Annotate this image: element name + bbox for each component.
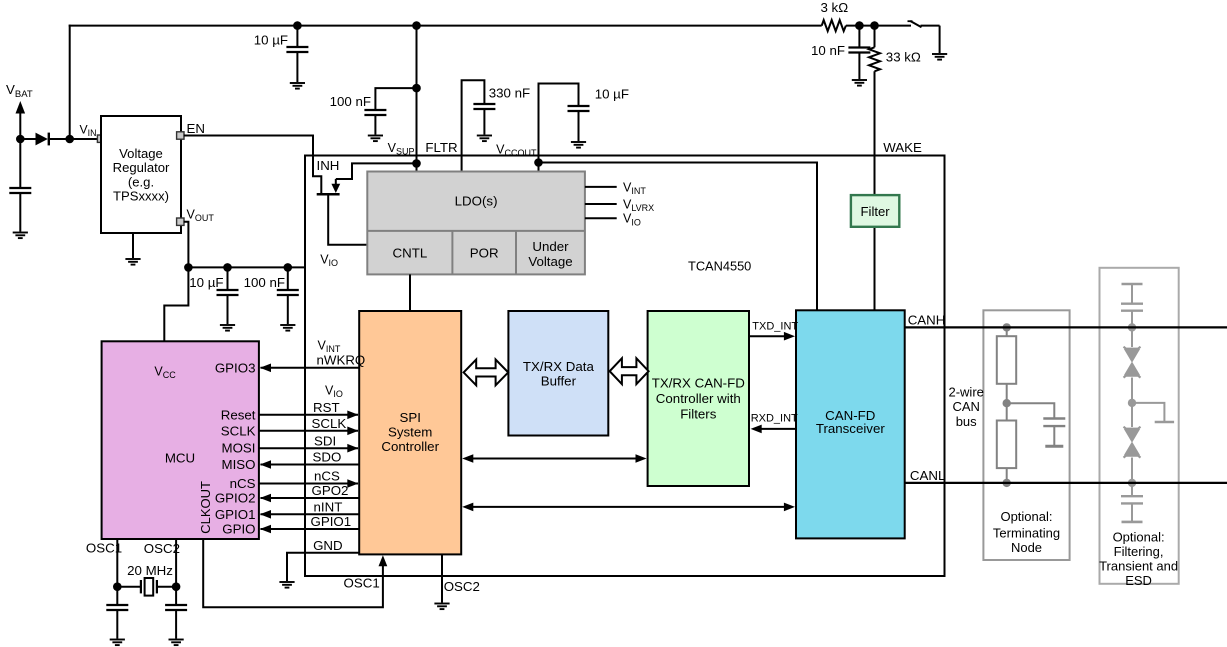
node INH-VSUP junction [412,159,421,168]
svg-text:TPSxxxx): TPSxxxx) [113,189,169,204]
svg-text:100 nF: 100 nF [330,94,371,109]
svg-text:MISO: MISO [222,457,256,472]
svg-text:RST: RST [313,400,340,415]
svg-text:Under: Under [532,239,569,254]
wire nCS [259,469,359,488]
wire SDO [260,450,359,469]
svg-text:POR: POR [470,246,499,261]
svg-text:EN: EN [187,121,205,136]
pin VINT stub [585,181,646,197]
resistor Rterm1 (terminating node upper 60 ohm) [997,327,1016,383]
svg-text:Transceiver: Transceiver [816,421,886,436]
wire RXD_INT [751,413,798,434]
node ESD CANL junction [1128,479,1136,487]
svg-text:330 nF: 330 nF [489,86,530,101]
svg-text:100 nF: 100 nF [244,275,285,290]
pin VIN square [97,135,104,142]
capacitor ESD top cap to chassis [1121,284,1143,327]
label WAKE [883,140,922,155]
ground regulator [125,233,140,265]
svg-text:GPIO1: GPIO1 [311,514,352,529]
TX/RX CAN-FD controller block [648,311,749,486]
crystal Y1 20MHz [117,563,176,596]
wire ESD mid stub to chassis [1132,403,1174,422]
svg-text:Voltage: Voltage [119,146,163,161]
capacitor terminating split cap [1007,403,1066,446]
wire GPIO1 [260,514,359,533]
wire SPI-controller double arrow [462,454,646,463]
svg-text:Filtering,: Filtering, [1114,544,1164,559]
svg-text:LDO(s): LDO(s) [455,194,498,209]
wire OSC1 MCU [116,539,118,587]
svg-text:CANL: CANL [910,468,945,483]
node terminating CANH junction [1003,323,1011,331]
TVS diode D1 (CANH bidirectional) [1124,327,1141,403]
label VIN [80,123,97,139]
svg-text:Transient and: Transient and [1099,559,1178,574]
pin VLVRX stub [585,198,654,214]
node VOUT corner junction [184,263,193,272]
svg-text:SDO: SDO [313,450,342,465]
capacitor 10uF VCCOUT [568,87,629,148]
svg-text:nWKRQ: nWKRQ [317,353,366,368]
svg-text:INH: INH [317,158,340,173]
svg-text:10 µF: 10 µF [254,33,288,48]
svg-text:WAKE: WAKE [883,140,922,155]
capacitor 100nF VSUP [330,84,421,141]
resistor R2 33k [869,21,921,71]
node terminating CANL junction [1003,479,1011,487]
svg-text:nINT: nINT [314,500,343,515]
label VSUP [388,141,415,157]
label VINT domain [318,339,341,355]
svg-text:Filter: Filter [861,204,891,219]
node ESD mid junction [1128,399,1136,407]
svg-text:Buffer: Buffer [541,373,577,388]
label CANH [908,313,946,328]
capacitor 10uF VOUT [189,263,238,331]
svg-text:10 µF: 10 µF [595,87,629,102]
node VBAT arrow [16,101,26,139]
label OSC2 MCU [144,541,180,556]
svg-text:Terminating: Terminating [993,526,1060,541]
wire nWKRQ to GPIO3 [260,364,359,373]
label OSC2 SPI [444,579,480,594]
svg-text:(e.g.: (e.g. [128,175,154,190]
wire TXD_INT [749,321,798,341]
node terminating mid junction [1003,399,1011,407]
svg-text:MOSI: MOSI [222,441,256,456]
svg-text:33 kΩ: 33 kΩ [886,50,921,65]
wire CANH bus line [905,326,1227,328]
optional terminating node box [983,310,1069,560]
svg-text:CLKOUT: CLKOUT [198,481,213,534]
svg-text:TCAN4550: TCAN4550 [688,259,751,274]
wire FLTR [462,80,485,171]
svg-text:TXD_INT: TXD_INT [752,321,798,333]
label OSC1 SPI [344,576,380,591]
svg-text:TX/RX CAN-FD: TX/RX CAN-FD [652,376,745,391]
wire top supply rail [69,25,822,27]
MCU pin labels [215,360,256,536]
svg-text:GPIO2: GPIO2 [215,491,256,506]
svg-text:SDI: SDI [314,433,336,448]
label INH [317,158,340,173]
svg-text:System: System [388,424,432,439]
LDO block U3 [367,172,585,275]
capacitor 10nF wake [811,21,870,85]
wire VBAT to top rail [69,25,71,139]
capacitor 10uF VSUP top [254,21,309,88]
wire EN to INH [184,136,322,194]
svg-text:RXD_INT: RXD_INT [751,413,798,425]
svg-text:10 nF: 10 nF [811,43,845,58]
TCAN4550 outer boundary box [305,156,945,577]
svg-text:20 MHz: 20 MHz [127,563,173,578]
wire GPO2 [260,483,359,502]
svg-text:FLTR: FLTR [425,140,457,155]
svg-text:Controller with: Controller with [656,391,741,406]
wire SCLK [259,416,359,435]
wire CNTL to SPI [409,274,411,311]
svg-text:nCS: nCS [230,476,256,491]
node VCCOUT junction [534,158,543,167]
svg-text:OSC1: OSC1 [344,576,380,591]
svg-text:CAN: CAN [952,399,979,414]
label VCCOUT [496,143,537,159]
svg-text:SPI: SPI [399,410,420,425]
pin VIO stub [585,212,641,228]
label VBAT [6,82,33,100]
svg-text:2-wire: 2-wire [948,385,983,400]
svg-text:OSC2: OSC2 [144,541,180,556]
wire VOUT rail [184,222,306,268]
label OSC1 MCU [86,541,122,556]
svg-text:GND: GND [313,538,343,553]
wire SPI-transceiver double arrow [462,503,795,512]
capacitor 330nF FLTR [473,86,530,142]
svg-text:ESD: ESD [1125,573,1152,588]
svg-text:OSC2: OSC2 [444,579,480,594]
svg-text:Optional:: Optional: [1113,530,1165,545]
capacitor ESD bottom cap to chassis [1121,483,1143,522]
label VOUT [187,208,215,224]
wire CANL bus line [905,482,1227,484]
MCU block U4 [102,341,259,539]
block arrow SPI-buffer [464,360,509,386]
diode D3 series reverse protection [20,133,101,146]
node ESD CANH junction [1128,323,1136,331]
wire CLKOUT to SPI OSC1 [203,539,387,607]
svg-text:Node: Node [1011,540,1042,555]
node VIN junction [65,135,74,144]
node OSC2 junction [172,582,181,591]
label TCAN4550 [688,259,751,274]
node VSUP rail junction [412,21,421,30]
svg-text:CANH: CANH [908,313,946,328]
CAN-FD transceiver block [796,310,905,538]
voltage regulator U2 [101,116,181,233]
switch S1 [908,21,948,60]
resistor R1 3k [820,0,848,31]
resistor Rterm2 (terminating node lower 60 ohm) [997,421,1016,483]
label FLTR [425,140,457,155]
svg-text:GPIO1: GPIO1 [215,507,256,522]
svg-text:Voltage: Voltage [528,254,572,269]
svg-text:GPIO3: GPIO3 [215,360,256,375]
wire GND [279,538,359,588]
label CANL [910,468,945,483]
svg-text:nCS: nCS [314,469,340,484]
wire VCCOUT to transceiver [539,163,818,311]
svg-text:3 kΩ: 3 kΩ [820,0,848,15]
svg-text:Reset: Reset [221,407,256,422]
svg-text:SCLK: SCLK [312,416,347,431]
pin EN square [177,132,184,139]
transistor Q1 INH switch [317,163,417,244]
capacitor VBAT input cap [9,139,31,238]
wire rail after resistor [846,25,911,27]
block arrow buffer-controller [610,358,649,384]
capacitor 100nF VOUT [244,263,299,331]
optional filtering/ESD box [1099,268,1179,588]
wire OSC2 MCU [175,539,177,587]
svg-text:Regulator: Regulator [113,160,170,175]
svg-text:Filters: Filters [680,407,717,422]
TX/RX data buffer block [508,311,608,436]
node VBAT junction [16,135,25,144]
svg-text:Optional:: Optional: [1000,509,1052,524]
wire VOUT to MCU VCC [164,267,188,341]
label VIO domain [325,384,343,400]
capacitor OSC2 load cap [165,587,187,645]
wire OSC2 SPI to ground [434,554,449,609]
capacitor OSC1 load cap [106,587,128,645]
svg-text:CNTL: CNTL [393,246,428,261]
label VIO pin [320,253,338,269]
label nWKRQ [317,353,366,368]
svg-text:GPIO: GPIO [222,522,255,537]
svg-text:10 µF: 10 µF [189,275,223,290]
pin VOUT square [177,218,184,225]
svg-text:GPO2: GPO2 [312,483,349,498]
node OSC1 junction [113,582,122,591]
wire VCCOUT [539,84,579,172]
svg-text:bus: bus [956,414,977,429]
wire terminating mid [1006,384,1008,421]
svg-text:OSC1: OSC1 [86,541,122,556]
wire WAKE [874,71,876,310]
svg-text:TX/RX Data: TX/RX Data [523,359,595,374]
wire nINT [260,500,359,519]
SPI system controller block [359,311,461,554]
label EN [187,121,205,136]
wire VSUP vertical [416,26,418,172]
wire SDI [259,433,359,452]
TVS diode D2 (CANL bidirectional) [1124,403,1141,483]
svg-text:MCU: MCU [165,451,195,466]
svg-text:Controller: Controller [381,439,439,454]
filter block [851,195,899,227]
svg-text:SCLK: SCLK [221,423,256,438]
wire RST [259,400,359,419]
label 2-wire CAN bus [948,385,983,429]
